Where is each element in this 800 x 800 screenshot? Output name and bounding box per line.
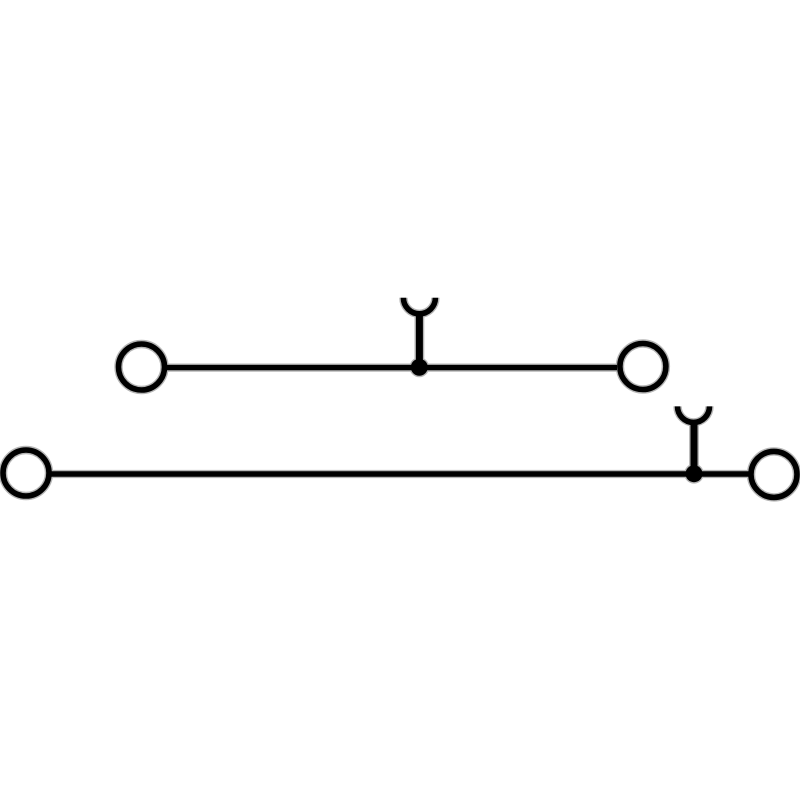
terminal circle 2.2 (lower right) <box>751 451 797 497</box>
junction dot upper <box>411 359 428 376</box>
terminal circle 2.1 (lower left) <box>3 450 49 496</box>
terminal circle 1.1 (upper left) <box>119 344 165 390</box>
wire lower level <box>51 471 749 476</box>
cross-connection fork upper <box>403 298 435 314</box>
wire upper level <box>167 365 617 370</box>
terminal circle 1.2 (upper right) <box>620 344 666 390</box>
junction dot lower <box>686 465 703 482</box>
wire stem of upper tap <box>416 311 423 367</box>
wire stem of lower tap <box>691 420 698 474</box>
cross-connection fork lower <box>678 406 710 422</box>
